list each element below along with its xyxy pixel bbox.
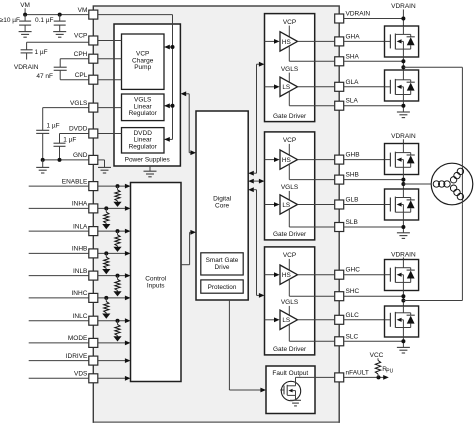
ground GND net (36, 167, 49, 173)
wire GLC output (298, 319, 335, 321)
wire SLB sense (289, 209, 334, 227)
pin VDRAIN (335, 11, 371, 24)
svg-text:INHC: INHC (72, 290, 88, 297)
wire ENABLE to control inputs (98, 184, 131, 189)
wire GLB gate (344, 204, 385, 206)
svg-text:INLA: INLA (73, 223, 88, 230)
capacitor 47nF flying (36, 67, 66, 80)
ground GND pin (98, 167, 111, 173)
pin GHC (335, 267, 361, 280)
wire INHB external stub (29, 252, 89, 254)
motor BLDC (431, 163, 473, 205)
wire DVDD pin to regulator (98, 133, 122, 135)
svg-text:VDRAIN: VDRAIN (346, 11, 371, 18)
block Digital Core (196, 111, 248, 300)
wire SLC sense (289, 324, 334, 341)
wire GND pin internal (98, 160, 105, 168)
svg-text:GHB: GHB (346, 152, 360, 159)
svg-text:Gate Driver: Gate Driver (273, 346, 307, 353)
wire GLC gate (344, 319, 385, 321)
wire GHB output (298, 159, 335, 161)
buffer HS driver A (280, 32, 298, 51)
svg-text:HS: HS (282, 272, 291, 279)
wire INLA external stub (29, 230, 89, 232)
wire SLB node (344, 220, 406, 233)
wire power supplies to digital core (181, 91, 196, 155)
svg-text:Pump: Pump (134, 64, 151, 71)
capacitor 1uF VGLS (36, 122, 59, 160)
ground fault output (290, 400, 301, 406)
node VGLS supply LS B (281, 184, 299, 200)
wire INLC external stub (29, 320, 89, 322)
ground bulk cap (19, 32, 32, 38)
wire IDRIVE to control inputs (98, 358, 131, 363)
node VDRAIN rail A (391, 3, 416, 26)
block Smart Gate Drive (201, 253, 243, 275)
pin INHC (72, 290, 98, 302)
svg-text:CPL: CPL (75, 72, 88, 79)
svg-text:VM: VM (78, 7, 88, 14)
svg-text:Smart Gate: Smart Gate (206, 257, 239, 264)
wire SLA sense (289, 91, 334, 105)
resistor pulldown INHC (102, 296, 110, 319)
resistor pulldown INLA (113, 229, 121, 252)
svg-text:MODE: MODE (68, 335, 88, 342)
ground bypass cap (53, 32, 66, 38)
wire VDRAIN pin to rail (344, 17, 406, 21)
block Power Supplies (114, 24, 180, 166)
pin INLB (73, 268, 98, 280)
node VGLS supply LS A (281, 66, 299, 82)
wire digital core to fault output (229, 300, 266, 392)
capacitor 0.1uF bypass (35, 15, 66, 32)
svg-text:VCC: VCC (370, 352, 384, 359)
pin VDS (74, 371, 98, 383)
block Fault Output (266, 366, 315, 414)
svg-text:PU: PU (386, 368, 393, 374)
pin SHB (335, 172, 359, 185)
wire digital core to gate driver C (248, 187, 264, 297)
svg-text:CPH: CPH (74, 51, 88, 58)
wire SHB node (344, 175, 406, 190)
pin SHC (335, 288, 360, 301)
pin VCP (74, 33, 98, 45)
wire MODE to control inputs (98, 341, 131, 346)
capacitor 1uF DVDD (54, 137, 77, 160)
node VDRAIN rail B (391, 133, 416, 144)
resistor pulldown ENABLE (113, 184, 121, 207)
svg-text:DVDD: DVDD (69, 126, 88, 133)
svg-text:LS: LS (282, 317, 290, 324)
block DVDD Linear Regulator (122, 128, 165, 153)
wire GND (41, 158, 89, 168)
svg-text:Inputs: Inputs (147, 283, 165, 290)
wire GLB output (298, 204, 335, 206)
wire VCP (27, 42, 89, 50)
svg-text:INHA: INHA (72, 201, 88, 208)
wire GHB gate (344, 159, 385, 161)
node VM (20, 2, 30, 15)
block Control Inputs (131, 183, 182, 382)
wire GLA output (298, 86, 335, 88)
ground Power Supplies (144, 166, 157, 177)
pin MODE (68, 335, 98, 347)
wire phase C to motor (403, 205, 462, 301)
svg-text:Protection: Protection (208, 284, 237, 291)
wire GHC output (298, 274, 335, 276)
svg-text:GHA: GHA (346, 33, 361, 40)
svg-text:GLC: GLC (346, 312, 360, 319)
pin INHB (72, 246, 98, 258)
wire VGLS (43, 108, 89, 131)
transistor low-side C (385, 306, 419, 337)
pin CPL (75, 72, 98, 84)
wire GHA output (298, 40, 335, 42)
wire INHC external stub (29, 297, 89, 299)
wire GHC gate (344, 274, 385, 276)
svg-text:GND: GND (73, 152, 88, 159)
wire VM to DVDD regulator (164, 137, 173, 142)
wire ENABLE external stub (29, 185, 89, 187)
svg-text:1 µF: 1 µF (47, 122, 60, 129)
pin DVDD (69, 126, 98, 138)
node VCP supply HS C (283, 252, 296, 270)
svg-text:SHB: SHB (346, 172, 359, 179)
svg-text:SLA: SLA (346, 98, 359, 105)
resistor RPU (375, 358, 393, 377)
svg-text:SHA: SHA (346, 53, 360, 60)
pin SHA (335, 53, 360, 66)
pin nFAULT (335, 369, 369, 382)
wire SLC node (344, 337, 406, 347)
wire SHC node (344, 291, 406, 307)
transistor high-side C (385, 260, 419, 291)
block VCP Charge Pump (122, 34, 165, 89)
wire motor phase feed vertical (461, 163, 463, 205)
svg-text:≥10 µF: ≥10 µF (0, 17, 20, 24)
pin GND (73, 152, 98, 164)
wire VM to pin (23, 13, 89, 17)
wire GLA gate (344, 86, 385, 88)
svg-text:VGLS: VGLS (281, 66, 299, 73)
node VDRAIN rail C (391, 251, 416, 259)
svg-text:INHB: INHB (72, 246, 88, 253)
svg-text:INLC: INLC (73, 313, 88, 320)
pin INLA (73, 223, 98, 235)
wire CPH pin to charge pump (98, 58, 122, 60)
wire SHB sense (289, 164, 334, 179)
svg-text:VCP: VCP (283, 137, 296, 144)
wire IDRIVE external stub (29, 360, 89, 362)
svg-text:SLC: SLC (346, 333, 359, 340)
svg-text:Gate Driver: Gate Driver (273, 113, 307, 120)
wire CPL pin to charge pump (98, 79, 122, 81)
buffer LS driver C (280, 310, 298, 329)
wire HS input A (265, 39, 280, 44)
pin INHA (72, 201, 98, 213)
wire INLC to control inputs (98, 318, 131, 323)
pin INLC (73, 313, 98, 325)
wire LS input A (265, 84, 280, 89)
gate driver block phase A (265, 14, 315, 122)
gate driver block phase C (265, 247, 315, 355)
wire INHA to control inputs (98, 206, 131, 211)
svg-text:SLB: SLB (346, 219, 358, 226)
wire SHA node (344, 57, 406, 70)
svg-text:VDRAIN: VDRAIN (391, 3, 416, 10)
svg-text:HS: HS (282, 157, 291, 164)
block VGLS Linear Regulator (122, 94, 165, 121)
pin SLA (335, 98, 359, 111)
wire VDS external stub (29, 377, 89, 379)
pin GLB (335, 197, 359, 210)
svg-text:ENABLE: ENABLE (62, 178, 88, 185)
wire INLA to control inputs (98, 229, 131, 234)
pin VM (78, 7, 98, 19)
pin ENABLE (62, 178, 98, 190)
svg-text:47 nF: 47 nF (36, 73, 53, 80)
svg-text:IDRIVE: IDRIVE (66, 353, 88, 360)
node VCP supply HS A (283, 19, 296, 37)
svg-text:VDS: VDS (74, 371, 88, 378)
svg-text:SHC: SHC (346, 288, 360, 295)
pin GHA (335, 33, 361, 46)
wire VDS to control inputs (98, 376, 131, 381)
svg-text:0.1 µF: 0.1 µF (35, 17, 54, 24)
IC device outline U1 (93, 6, 339, 422)
svg-text:Regulator: Regulator (129, 110, 158, 117)
pin SLC (335, 333, 359, 346)
buffer HS driver C (280, 265, 298, 284)
wire CPH (60, 59, 89, 67)
svg-text:VGLS: VGLS (70, 100, 88, 107)
wire nFAULT to host (344, 375, 389, 380)
svg-text:Control: Control (145, 276, 167, 283)
wire INHA external stub (29, 207, 89, 209)
transistor high-side A (385, 26, 419, 57)
pin VGLS (70, 100, 98, 112)
svg-text:Fault Output: Fault Output (272, 370, 308, 377)
svg-text:VCP: VCP (74, 33, 87, 40)
svg-text:GLB: GLB (346, 197, 359, 204)
pin GLC (335, 312, 359, 325)
transistor high-side B (385, 144, 419, 175)
wire phase B to motor (403, 183, 431, 185)
resistor pulldown INLB (113, 274, 121, 297)
svg-text:VCP: VCP (283, 252, 296, 259)
ground phase C (397, 347, 410, 353)
buffer LS driver B (280, 195, 298, 214)
buffer HS driver B (280, 150, 298, 169)
svg-text:nFAULT: nFAULT (346, 369, 369, 376)
wire LS input B (265, 202, 280, 207)
svg-text:VGLS: VGLS (281, 184, 299, 191)
wire DVDD (60, 134, 89, 144)
svg-text:LS: LS (282, 84, 290, 91)
wire INHB to control inputs (98, 251, 131, 256)
resistor pulldown INHB (102, 251, 110, 274)
svg-text:VDRAIN: VDRAIN (391, 251, 416, 258)
wire digital core to gate driver A (248, 62, 264, 176)
wire nFAULT internal (296, 376, 335, 378)
pin SLB (335, 219, 358, 232)
pin CPH (74, 51, 98, 63)
resistor pulldown INHA (102, 206, 110, 229)
svg-text:GLA: GLA (346, 79, 360, 86)
svg-text:Core: Core (215, 203, 229, 210)
svg-text:Gate Driver: Gate Driver (273, 231, 307, 238)
svg-text:Drive: Drive (215, 264, 230, 271)
svg-text:Power Supplies: Power Supplies (125, 157, 171, 164)
wire VM feed rail (98, 15, 173, 140)
svg-text:VDRAIN: VDRAIN (391, 133, 416, 140)
pin GHB (335, 152, 360, 165)
svg-text:VDRAIN: VDRAIN (14, 64, 39, 71)
wire GHA gate (344, 40, 385, 42)
motor windings (433, 168, 463, 200)
wire LS input C (265, 317, 280, 322)
svg-text:LS: LS (282, 202, 290, 209)
transistor low-side A (385, 70, 419, 101)
wire SHC sense (289, 279, 334, 296)
svg-text:VGLS: VGLS (281, 299, 299, 306)
capacitor 1uF VCP (21, 49, 48, 60)
transistor low-side B (385, 189, 419, 220)
pin IDRIVE (66, 353, 98, 365)
transistor open-drain fault (280, 377, 300, 400)
wire SHA sense (289, 46, 334, 61)
ground phase B (397, 233, 410, 239)
ground phase A (397, 112, 410, 118)
node VGLS supply LS C (281, 299, 299, 315)
node VCP supply HS B (283, 137, 296, 155)
wire MODE external stub (29, 342, 89, 344)
wire HS input C (265, 272, 280, 277)
wire digital core to gate driver B (248, 179, 264, 184)
gate driver block phase B (265, 132, 315, 240)
svg-text:GHC: GHC (346, 267, 361, 274)
capacitor 10uF bulk (0, 15, 31, 32)
wire VGLS pin to regulator (98, 107, 122, 109)
wire INLB external stub (29, 275, 89, 277)
block Protection (201, 280, 243, 293)
wire control inputs to digital core (181, 230, 196, 265)
svg-text:1 µF: 1 µF (35, 49, 48, 56)
svg-text:HS: HS (282, 39, 291, 46)
wire phase A to motor (403, 67, 462, 163)
wire VCP pin to charge pump (98, 40, 122, 42)
buffer LS driver A (280, 77, 298, 96)
resistor pulldown INLC (113, 319, 121, 342)
wire INLB to control inputs (98, 273, 131, 278)
svg-text:Regulator: Regulator (129, 143, 158, 150)
wire INHC to control inputs (98, 296, 131, 301)
svg-text:1 µF: 1 µF (63, 137, 76, 144)
wire HS input B (265, 157, 280, 162)
wire CPL (60, 70, 89, 79)
wire VM to VCP charge pump (164, 45, 175, 50)
wire SLA node (344, 101, 406, 112)
wire VM to VGLS regulator (164, 103, 175, 108)
pin GLA (335, 79, 359, 92)
svg-text:VCP: VCP (283, 19, 296, 26)
svg-text:VM: VM (20, 2, 30, 9)
svg-text:INLB: INLB (73, 268, 87, 275)
